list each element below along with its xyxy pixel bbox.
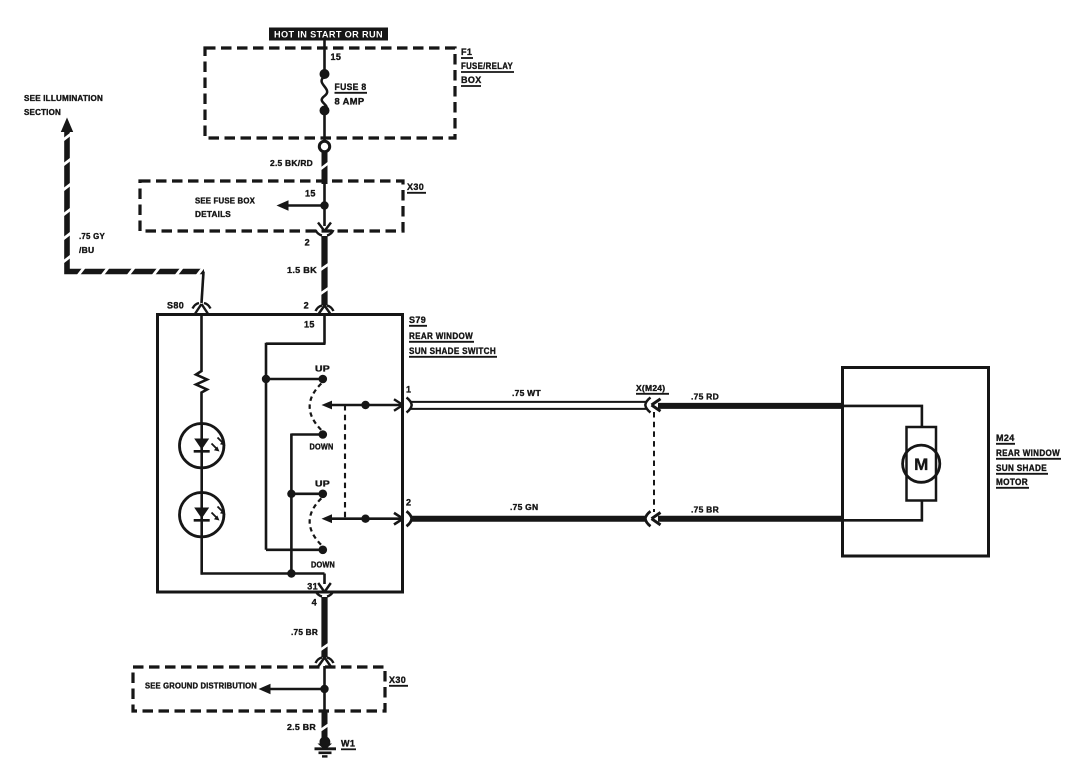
contact DOWN 2 (319, 546, 328, 555)
junction node ground bus (287, 569, 295, 577)
junction node common 2 (361, 515, 369, 523)
resistor (illumination dropping) (196, 315, 207, 424)
connector ring terminal below F1 box (319, 141, 329, 151)
svg-text:DETAILS: DETAILS (195, 210, 231, 219)
dashed connector link at X(M24) (653, 412, 655, 512)
svg-text:2: 2 (406, 498, 411, 508)
svg-text:.75 RD: .75 RD (691, 392, 719, 402)
svg-text:.75 BR: .75 BR (291, 627, 318, 637)
svg-text:SEE GROUND DISTRIBUTION: SEE GROUND DISTRIBUTION (145, 682, 257, 691)
LED lamp 2 (illumination) (180, 493, 226, 537)
svg-text:W1: W1 (341, 739, 355, 749)
svg-text:31: 31 (307, 582, 318, 592)
connector: socket below box (pin 4) (316, 591, 334, 597)
svg-text:SUN SHADE: SUN SHADE (996, 463, 1047, 473)
svg-text:.75 WT: .75 WT (512, 388, 541, 398)
svg-text:M24: M24 (996, 433, 1015, 443)
svg-text:X30: X30 (407, 182, 424, 192)
svg-text:REAR WINDOW: REAR WINDOW (409, 331, 473, 341)
svg-text:15: 15 (304, 320, 315, 330)
svg-text:8 AMP: 8 AMP (335, 97, 365, 107)
svg-text:FUSE 8: FUSE 8 (335, 82, 367, 92)
switch wiper 2 (dashed arc) (310, 498, 322, 545)
wire .75 GN (411, 516, 646, 522)
switch box S79 (solid) (158, 315, 403, 593)
arrow to SEE GROUND DISTRIBUTION (264, 688, 325, 691)
wire: motor feed top inside box (843, 406, 922, 427)
svg-text:1: 1 (406, 385, 411, 395)
svg-text:4: 4 (312, 598, 317, 608)
common 2 wiper line with arrow (322, 514, 333, 523)
svg-text:MOTOR: MOTOR (996, 477, 1028, 487)
svg-text:HOT IN START OR RUN: HOT IN START OR RUN (274, 30, 383, 40)
label M24 REAR WINDOW SUN SHADE MOTOR (996, 433, 1061, 488)
wire inside X30 with junction (323, 184, 326, 226)
svg-text:X30: X30 (389, 675, 406, 685)
wire 2.5 BR (322, 712, 328, 739)
svg-text:UP: UP (315, 365, 331, 374)
svg-text:S79: S79 (409, 315, 426, 325)
svg-text:SUN SHADE SWITCH: SUN SHADE SWITCH (409, 346, 496, 356)
wire: fuse to F1 box bottom (323, 112, 326, 141)
svg-text:DOWN: DOWN (311, 561, 335, 570)
contact DOWN 1 (319, 430, 328, 439)
connector: male arrow at X30 bottom edge (318, 223, 331, 232)
svg-text:15: 15 (305, 189, 316, 199)
motor box M24 (solid) (843, 368, 989, 557)
ground distribution box X30 (dashed) (133, 667, 385, 711)
junction dot (320, 201, 328, 209)
wire: hatched bus to S80 (202, 272, 204, 304)
svg-text:UP: UP (315, 480, 331, 489)
wire .75 BR (to motor) (658, 516, 843, 522)
wire: banner to fuse (pin 15 feed) (323, 40, 326, 73)
switch wiper 1 (dashed arc) (310, 384, 322, 431)
connector: wire end flares at ground box edge (316, 658, 334, 664)
wire 1.5 BK (321, 236, 327, 306)
svg-text:1.5 BK: 1.5 BK (287, 265, 318, 275)
arrow up to illumination section (61, 118, 73, 133)
connector: male arrow right at box edge (pin 1) (394, 399, 403, 411)
svg-text:.75 GN: .75 GN (510, 502, 538, 512)
wire between lamps (200, 468, 203, 493)
svg-text:.75 BR: .75 BR (691, 505, 719, 515)
wire: left feed vertical (265, 343, 268, 550)
connector at S79 top: pin 2 socket + male arrow up / pin 15 (316, 306, 334, 312)
svg-text:F1: F1 (461, 47, 472, 57)
junction node on left feed (262, 375, 270, 383)
svg-text:REAR WINDOW: REAR WINDOW (996, 448, 1060, 458)
connector: female cup outside (pin 2) (407, 511, 412, 526)
wire .75 WT (double line) (411, 401, 646, 403)
connector box X30 (dashed) (140, 181, 403, 231)
banner HOT IN START OR RUN (269, 28, 388, 41)
wire 2.5 BK/RD (322, 152, 328, 184)
wire inside ground box (323, 666, 326, 713)
mechanical link (dashed) between wipers (344, 405, 346, 519)
contact UP 1 (319, 375, 328, 384)
wire: to UP contact 1 (266, 378, 320, 381)
junction node center feed / UP2 (287, 490, 295, 498)
wire: DOWN1 to center feed (291, 433, 320, 436)
svg-text:SEE ILLUMINATION: SEE ILLUMINATION (24, 94, 103, 103)
svg-text:DOWN: DOWN (310, 443, 334, 452)
svg-text:2.5 BR: 2.5 BR (287, 722, 316, 732)
connector: male arrow down at box bottom (pin 31) (318, 583, 331, 592)
connector: female cup outside (pin 1) (407, 398, 412, 413)
ground W1 (315, 736, 337, 756)
connector: female cup below X30 / pin 2 (316, 230, 334, 236)
wire: to UP contact 2 (291, 492, 320, 495)
wire: ground bus to pin 31 (323, 574, 326, 585)
junction node common 1 (361, 401, 369, 409)
wire .75 RD (658, 403, 843, 409)
LED lamp 1 (illumination) (180, 424, 226, 468)
svg-text:2: 2 (305, 238, 310, 248)
wire: left feed to DOWN2 (266, 548, 320, 551)
wire: motor feed bottom inside box (843, 500, 922, 520)
contact UP 2 (319, 490, 328, 499)
wire: center feed vertical (290, 434, 293, 574)
fuse FUSE 8 / 8 AMP (320, 69, 368, 116)
wire: lamp chain down to ground bus (200, 537, 203, 575)
junction dot (320, 685, 328, 693)
svg-text:M: M (914, 455, 928, 474)
label S79 REAR WINDOW SUN SHADE SWITCH (409, 315, 497, 357)
svg-text:15: 15 (331, 52, 342, 62)
svg-text:S80: S80 (167, 301, 184, 311)
svg-text:SECTION: SECTION (24, 108, 61, 117)
svg-text:.75 GY: .75 GY (79, 231, 105, 241)
wire .75 BR (ground lead) (321, 597, 327, 658)
wire: jog left from pin 15 (266, 342, 326, 345)
arrow to SEE FUSE BOX DETAILS (282, 204, 325, 207)
common 1 wiper line with arrow (322, 401, 333, 410)
label F1 FUSE/RELAY BOX (461, 47, 514, 86)
svg-text:X(M24): X(M24) (636, 383, 665, 393)
wire .75 GY/BU (hatched) vertical (67, 131, 204, 272)
connector X(M24) pin 1: female cup + male arrow left (645, 398, 650, 413)
svg-text:2.5 BK/RD: 2.5 BK/RD (270, 158, 313, 168)
wire: pin 15 stem into box (323, 315, 326, 344)
svg-text:2: 2 (304, 301, 309, 311)
svg-text:/BU: /BU (79, 245, 94, 255)
connector X(M24) pin 2: female cup + male arrow left (645, 511, 650, 526)
svg-text:FUSE/RELAY: FUSE/RELAY (461, 61, 513, 71)
connector: male arrow right at box edge (pin 2) (394, 513, 403, 525)
svg-text:BOX: BOX (461, 75, 482, 85)
fuse/relay box F1 (dashed) (205, 48, 455, 138)
svg-text:SEE FUSE BOX: SEE FUSE BOX (195, 197, 255, 206)
ground bus wire along box bottom (201, 572, 325, 575)
motor M24 symbol (903, 427, 940, 501)
